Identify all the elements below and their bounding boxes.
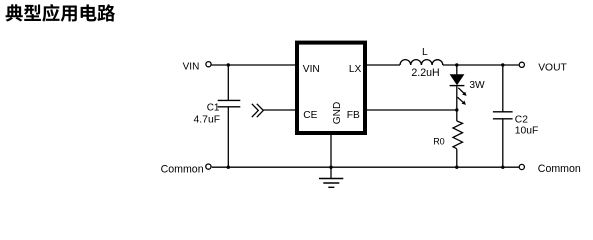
svg-text:C1: C1 [207, 102, 220, 113]
svg-text:LX: LX [349, 64, 362, 75]
svg-text:4.7uF: 4.7uF [194, 114, 221, 125]
svg-text:Common: Common [161, 163, 204, 175]
svg-text:L: L [422, 47, 428, 58]
svg-text:C2: C2 [515, 115, 528, 126]
svg-text:VIN: VIN [303, 64, 320, 75]
svg-text:FB: FB [347, 110, 360, 121]
svg-text:R0: R0 [433, 136, 445, 146]
svg-text:Common: Common [538, 163, 581, 175]
svg-text:VOUT: VOUT [538, 63, 567, 74]
svg-text:3W: 3W [469, 80, 485, 91]
svg-text:GND: GND [332, 102, 343, 124]
svg-text:CE: CE [303, 110, 317, 121]
svg-text:VIN: VIN [183, 62, 200, 73]
svg-text:2.2uH: 2.2uH [411, 67, 439, 79]
svg-text:10uF: 10uF [515, 126, 538, 137]
